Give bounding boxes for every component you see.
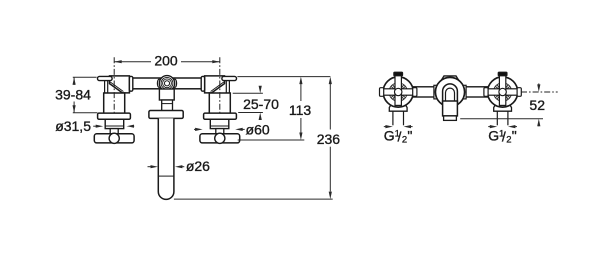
body tube (top view) bbox=[408, 87, 494, 97]
spout upper connector bbox=[159, 89, 174, 111]
svg-text:": " bbox=[512, 128, 517, 144]
dim 113 bbox=[237, 77, 330, 140]
handle right (top view) bbox=[484, 72, 521, 125]
spout flange bbox=[149, 111, 183, 119]
svg-text:25-70: 25-70 bbox=[243, 96, 279, 112]
svg-text:2: 2 bbox=[506, 135, 511, 146]
dim 39-84 bbox=[55, 77, 97, 113]
dim 200 bbox=[114, 53, 220, 69]
svg-text:/: / bbox=[398, 129, 402, 145]
svg-text:G: G bbox=[384, 128, 395, 144]
centerline right valve bbox=[219, 57, 221, 112]
dim diameter 26 bbox=[148, 158, 211, 174]
mixer body (top view) bbox=[435, 76, 464, 121]
centerline left valve bbox=[113, 57, 115, 112]
dim diameter 31,5 bbox=[55, 118, 134, 134]
svg-text:ø31,5: ø31,5 bbox=[55, 118, 91, 134]
handle left (top view) bbox=[380, 72, 417, 125]
wire bbox=[131, 78, 204, 89]
dim 236 bbox=[174, 77, 340, 200]
centerline body (top view) bbox=[521, 91, 558, 93]
svg-text:": " bbox=[407, 128, 412, 144]
svg-text:G: G bbox=[488, 128, 499, 144]
valve left (front view) bbox=[94, 76, 134, 143]
svg-text:200: 200 bbox=[154, 53, 178, 69]
dim G1/2 left bbox=[384, 125, 413, 146]
svg-text:52: 52 bbox=[529, 97, 545, 113]
dim diameter 60 bbox=[194, 121, 270, 137]
svg-text:/: / bbox=[502, 129, 506, 145]
valve right (front view) bbox=[200, 76, 240, 143]
svg-text:ø26: ø26 bbox=[186, 158, 210, 174]
dim 25-70 bbox=[233, 86, 279, 120]
svg-text:ø60: ø60 bbox=[246, 121, 270, 137]
node tee-outlet bbox=[157, 76, 176, 91]
svg-text:2: 2 bbox=[402, 135, 407, 146]
collar left of body bbox=[434, 85, 438, 99]
svg-text:236: 236 bbox=[317, 131, 341, 147]
svg-text:113: 113 bbox=[289, 102, 312, 118]
svg-text:39-84: 39-84 bbox=[55, 86, 91, 102]
dim 52 bbox=[460, 83, 545, 126]
collar right of body bbox=[463, 85, 467, 99]
dim G1/2 right bbox=[488, 125, 517, 146]
spout tube bbox=[158, 118, 174, 199]
